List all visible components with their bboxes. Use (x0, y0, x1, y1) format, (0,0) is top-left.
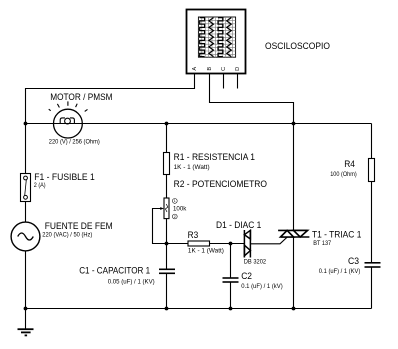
wire triac column upper (293, 124, 295, 231)
ground stem (25, 309, 27, 330)
svg-text:220 (V) / 256 (Ohm): 220 (V) / 256 (Ohm) (49, 138, 100, 145)
trace zigzag 2 (227, 18, 232, 57)
svg-text:2 (A): 2 (A) (34, 182, 46, 189)
junction top wire / R1 column (165, 122, 169, 126)
svg-text:BT 137: BT 137 (313, 240, 332, 247)
capacitor C3 (365, 263, 381, 267)
junction top wire / triac column (292, 122, 296, 126)
svg-text:DB 3202: DB 3202 (244, 259, 267, 266)
wire R3 to diac node (210, 243, 245, 245)
wire osc pin C stub (223, 74, 225, 89)
svg-text:D: D (235, 67, 241, 71)
motor rays (49, 101, 88, 111)
diac D1 (244, 230, 250, 258)
svg-text:1: 1 (174, 199, 176, 203)
junction bottom wire / ground (24, 307, 28, 311)
wiper arrow (160, 207, 164, 210)
trace zigzag 1 (209, 18, 214, 57)
wire wiper loop (153, 209, 167, 244)
svg-text:FUENTE DE FEM: FUENTE DE FEM (45, 221, 113, 231)
triac T1 (278, 230, 309, 237)
wire bottom horizontal (26, 308, 372, 310)
oscilloscope pin labels A B C D (192, 67, 241, 71)
pin 1 circled (172, 199, 177, 204)
junction R3/D1/C2 (229, 242, 233, 246)
svg-text:1K - 1 (Watt): 1K - 1 (Watt) (188, 248, 224, 255)
wire pinA to left bus (26, 74, 195, 124)
resistor R4 (369, 159, 375, 182)
trace square wave 1 (200, 18, 205, 57)
svg-text:C1 - CAPACITOR 1: C1 - CAPACITOR 1 (79, 266, 150, 276)
source V1 FUENTE DE FEM (11, 222, 40, 251)
capacitor C2 (223, 278, 239, 282)
potentiometer R2 (164, 198, 169, 219)
junction bottom wire / triac column (292, 307, 296, 311)
ground (18, 329, 34, 335)
junction left bus / motor (24, 122, 28, 126)
svg-text:F1 - FUSIBLE 1: F1 - FUSIBLE 1 (34, 172, 95, 182)
svg-text:1K - 1 (Watt): 1K - 1 (Watt) (174, 164, 210, 171)
wire C2 column (230, 244, 232, 279)
wire R1 to R2 (166, 175, 168, 199)
wire right branch down to R4 (371, 124, 373, 159)
svg-text:MOTOR / PMSM: MOTOR / PMSM (50, 92, 112, 102)
wire R2 bottom to gate node (166, 219, 168, 244)
junction bottom wire / C2 (229, 307, 233, 311)
wire C3 to bottom (371, 267, 373, 309)
resistor R3 (188, 241, 210, 246)
svg-text:0.1 (uF) / 1 (kV): 0.1 (uF) / 1 (kV) (241, 283, 283, 290)
resistor R1 (164, 153, 170, 175)
wire left bus motor junction to fuse (25, 124, 27, 174)
junction gate node R2/R3/C1 (165, 242, 169, 246)
svg-text:2: 2 (174, 215, 176, 219)
wire source to bottom (25, 251, 27, 309)
wire fuse to source (25, 202, 27, 223)
oscilloscope screen graticule grid (198, 17, 235, 57)
pin 2 circled (172, 214, 177, 219)
wire pinB to triac column (210, 74, 294, 124)
svg-text:0.1 (uF) / 1 (KV): 0.1 (uF) / 1 (KV) (319, 268, 361, 275)
motor coil (54, 118, 83, 124)
svg-text:C: C (221, 67, 227, 71)
oscilloscope screen border (198, 17, 235, 57)
svg-text:R3: R3 (188, 230, 199, 240)
wire C1 column (166, 244, 168, 270)
svg-text:R1 - RESISTENCIA 1: R1 - RESISTENCIA 1 (174, 152, 255, 162)
wire gate node to R3 (167, 243, 189, 245)
wire R4 to C3 (371, 182, 373, 263)
wire osc pin D stub (237, 74, 239, 89)
svg-text:A: A (192, 67, 198, 71)
potentiometer wiper mark (165, 204, 167, 212)
capacitor C1 (159, 269, 175, 273)
svg-text:T1 - TRIAC 1: T1 - TRIAC 1 (312, 230, 361, 240)
svg-text:C3: C3 (348, 256, 359, 266)
junction bottom wire / C1 (165, 307, 169, 311)
svg-text:B: B (207, 67, 213, 71)
svg-text:0.05 (uF) / 1 (KV): 0.05 (uF) / 1 (KV) (108, 278, 155, 285)
svg-text:220 (VAC) / 50 (Hz): 220 (VAC) / 50 (Hz) (42, 232, 92, 239)
svg-text:D1 - DIAC 1: D1 - DIAC 1 (216, 220, 261, 230)
svg-text:OSCILOSCOPIO: OSCILOSCOPIO (265, 41, 330, 51)
wire main top horizontal (26, 123, 54, 125)
svg-text:100 (Ohm): 100 (Ohm) (330, 171, 357, 178)
svg-text:R2 - POTENCIOMETRO: R2 - POTENCIOMETRO (174, 179, 267, 189)
fuse F1 (21, 174, 31, 202)
wire diac to triac gate (250, 237, 287, 244)
wire triac column lower (293, 237, 295, 309)
trace square wave 2 (218, 18, 223, 57)
svg-text:R4: R4 (344, 159, 355, 169)
svg-text:C2: C2 (241, 271, 252, 281)
oscilloscope U1 box (187, 10, 246, 74)
svg-text:100k: 100k (173, 205, 187, 212)
wire R1 column top (166, 124, 168, 153)
motor M1 circle (54, 109, 83, 138)
